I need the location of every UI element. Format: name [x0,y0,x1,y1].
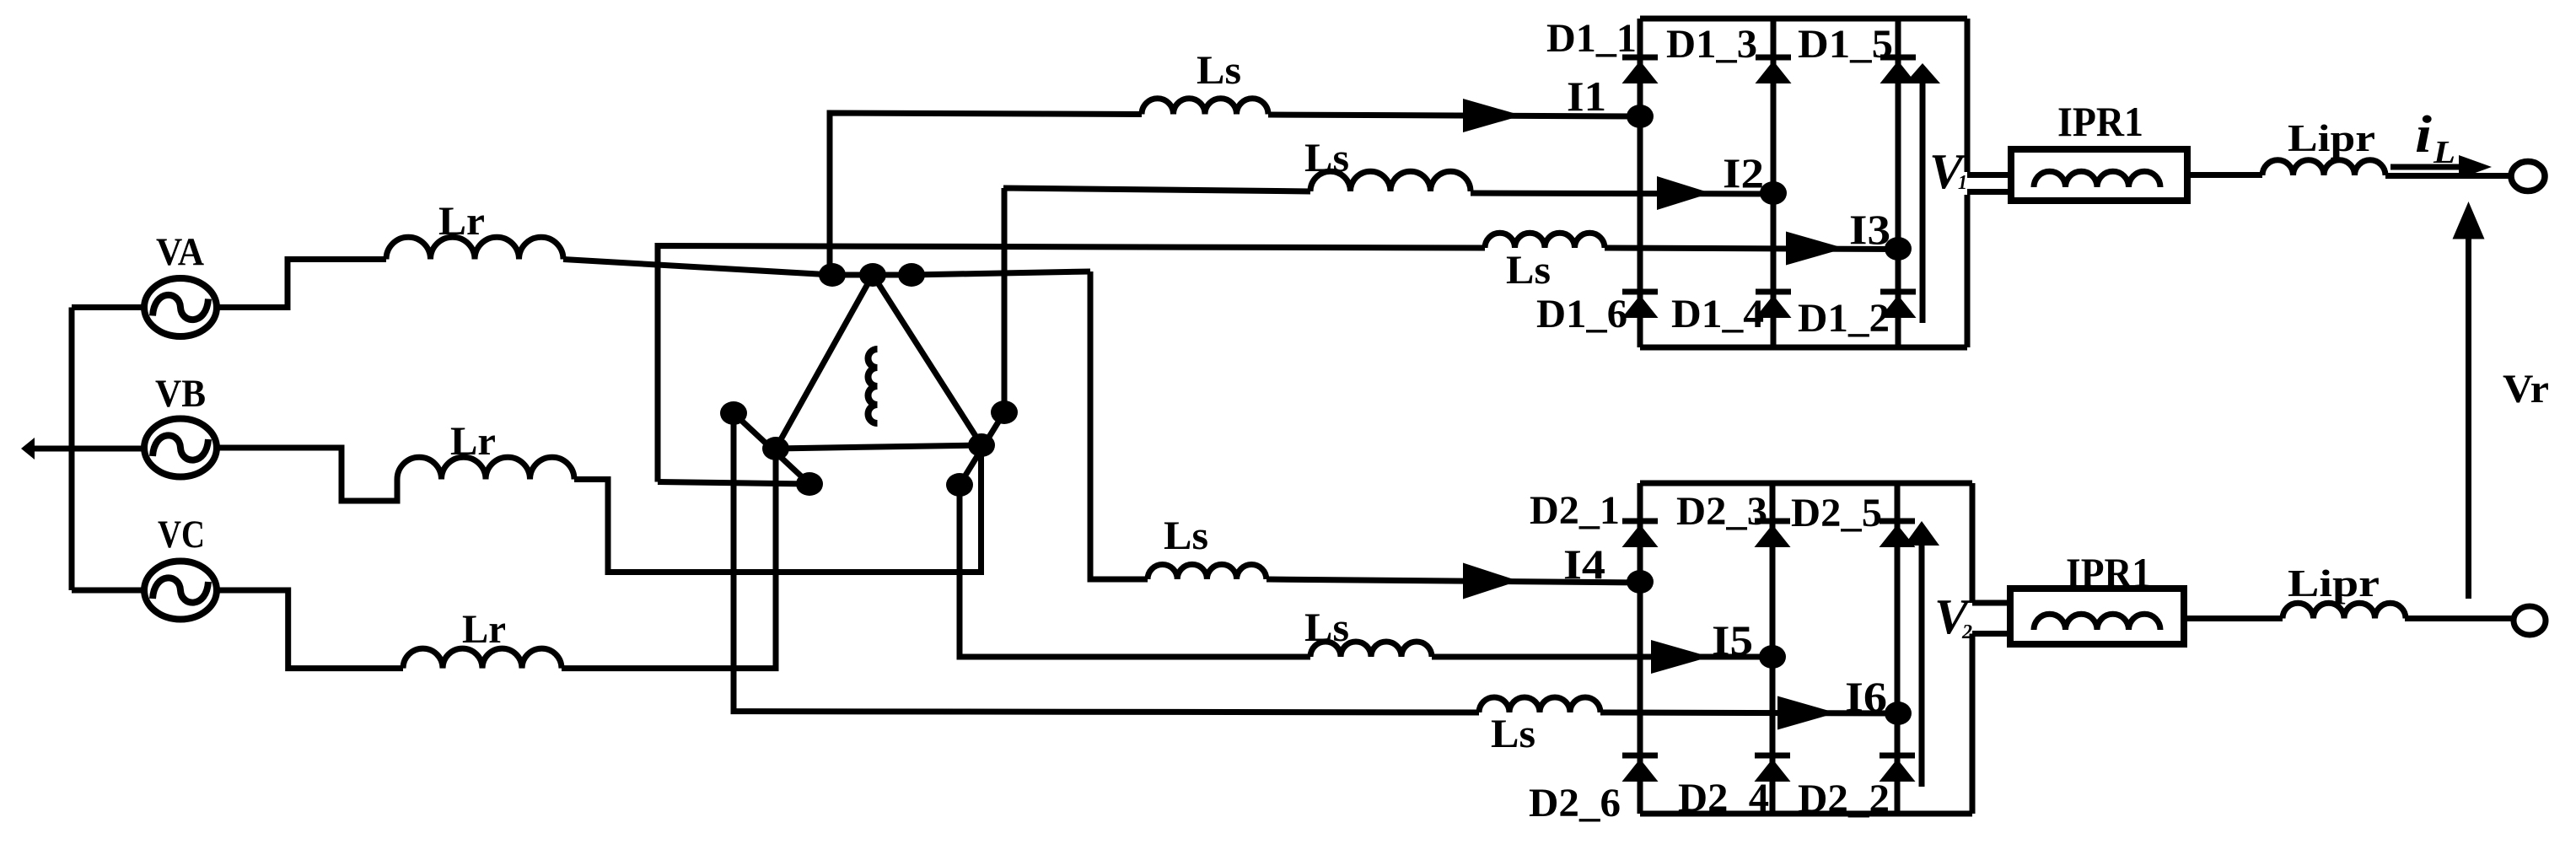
tap line left [734,413,809,484]
svg-text:Lipr: Lipr [2288,562,2380,605]
leg D1_5/D1_2 [1896,19,1901,347]
svg-text:Lr: Lr [462,607,506,652]
wire I5 feed [960,485,1310,657]
node dot (2251,846) [1885,702,1912,725]
transformer delta winding [776,275,981,449]
leg D2_3/D2_4 [1770,483,1776,814]
svg-text:VC: VC [158,513,205,556]
node dot (1945,690) [1627,570,1654,594]
svg-text:D1_4: D1_4 [1671,292,1764,336]
node dot (2102,779) [1759,645,1786,669]
svg-text:Ls: Ls [1304,605,1349,650]
wire I6 feed [734,413,1479,712]
svg-text:L: L [2433,135,2455,170]
diode top bridge1 x=2251 [1880,55,1916,61]
arrow I3 [1786,232,1845,266]
svg-text:I5: I5 [1712,616,1753,664]
svg-text:IPR1: IPR1 [2057,98,2143,145]
svg-text:D1_6: D1_6 [1536,292,1627,336]
svg-text:D1_2: D1_2 [1798,296,1890,341]
diode bottom bridge2 x=2250 [1880,753,1915,759]
svg-text:IPR1: IPR1 [2066,549,2151,596]
iL arrow [2390,164,2460,170]
inductor Ls (I4) [1148,564,1266,579]
output wires V1 [1967,175,2011,192]
node dot (960,574) [796,472,823,496]
diode top bridge2 x=2102 [1755,519,1790,524]
svg-text:Lr: Lr [450,419,496,464]
node dot (2251,295) [1885,237,1912,261]
svg-text:D2_6: D2_6 [1529,781,1621,825]
svg-text:Ls: Ls [1506,248,1551,293]
svg-text:Ls: Ls [1164,513,1208,558]
svg-text:D2_3: D2_3 [1676,489,1767,534]
svg-text:I4: I4 [1563,540,1605,588]
diode bridge 2 box [1640,483,1972,814]
winding coil symbol [869,349,878,423]
node dot (2103,229) [1760,181,1787,205]
diode bottom bridge1 x=2251 [1880,289,1916,295]
wire I2 feed [1003,188,1310,412]
node dot (1164,528) [968,433,995,457]
source VB [144,419,217,477]
svg-text:2: 2 [1961,621,1972,643]
wire I1 feed [830,113,1142,275]
wire VA to bus [72,304,144,310]
V2 arrow [1919,546,1925,787]
wire VB right + step down [215,448,397,501]
source VC [144,562,217,620]
node left bus [69,308,75,591]
wire VC right + step down [216,590,403,669]
leg D2_5/D2_2 [1895,483,1901,814]
svg-text:D2_1: D2_1 [1530,488,1620,533]
svg-text:I1: I1 [1567,73,1606,120]
svg-text:I6: I6 [1845,673,1887,720]
svg-text:Lr: Lr [438,199,485,244]
svg-text:I2: I2 [1723,149,1764,196]
arrow I6 [1777,696,1837,730]
terminal circle bottom [2514,606,2546,635]
arrow I1 [1463,99,1522,132]
svg-text:Ls: Ls [1304,136,1349,180]
node dot (987,326) [819,263,846,287]
svg-text:Lipr: Lipr [2288,117,2375,159]
wire I4 feed [1090,271,1148,579]
Vr arrow [2466,237,2471,599]
inductor Ls (I3) [1485,233,1605,248]
svg-text:D1_3: D1_3 [1666,22,1757,67]
wire VB left with arrow [34,446,145,452]
node dot (920,532) [762,437,789,460]
diode top bridge2 x=2250 [1880,519,1915,524]
svg-text:1: 1 [1958,172,1967,194]
inductor Lr (phase C) [403,648,562,669]
node dot (1081,326) [898,263,925,287]
svg-text:i: i [2415,106,2432,164]
arrow I5 [1651,640,1710,674]
diode bottom bridge2 x=1945 [1622,753,1658,759]
inductor Lipr (top) [2262,160,2385,175]
svg-text:Ls: Ls [1197,48,1241,93]
arrow I4 [1463,563,1519,599]
wire to Lipr (bottom) [2184,616,2283,621]
wire VC to bus [72,588,145,594]
inductor Ls (I1) [1142,99,1268,115]
svg-text:VB: VB [155,372,206,416]
diode top bridge1 x=2103 [1756,55,1791,61]
wire Lr-C to delta bottom-left vertex [562,449,776,669]
svg-text:VA: VA [156,230,204,274]
terminal circle top [2511,162,2545,191]
diode top bridge1 x=1945 [1622,55,1658,61]
inductor Lr (phase A) [386,237,563,259]
diode bottom bridge1 x=1945 [1622,289,1658,295]
wire to Lipr (top) [2187,172,2262,178]
diode top bridge2 x=1945 [1622,519,1658,524]
inductor Lr (phase B) [397,457,574,479]
inductor Lipr (bottom) [2283,603,2406,618]
svg-text:I3: I3 [1849,206,1890,253]
svg-text:D1_5: D1_5 [1798,22,1893,67]
node dot (1138,575) [946,473,973,497]
wire VA right + step up [217,260,386,308]
IPR1 box (top) [2011,149,2187,201]
inductor Ls (I6) [1479,697,1600,712]
svg-text:D1_1: D1_1 [1546,16,1637,61]
tap line right [960,412,1004,485]
IPR1 box (bottom) [2010,589,2184,644]
diode bottom bridge1 x=2103 [1756,289,1791,295]
inductor Ls (I5) [1310,642,1432,657]
node dot (1035,326) [859,263,886,287]
diode bridge 1 box [1640,19,1967,347]
inductor Ls (I2) [1310,171,1471,191]
diode bottom bridge2 x=2102 [1755,753,1790,759]
svg-text:D2_5: D2_5 [1791,491,1882,535]
wire Lr-B to delta bottom-right vertex [574,445,981,573]
source VA [144,278,217,336]
node dot (1945,138) [1627,105,1654,128]
node dot (1191,489) [991,400,1018,424]
svg-text:D2_2: D2_2 [1798,777,1890,821]
svg-text:Ls: Ls [1491,712,1535,756]
node dot (870,490) [720,401,747,425]
output wires V2 [1972,603,2010,634]
leg D1_3/D1_4 [1771,19,1777,347]
wire Lr-A to transformer top [563,260,1090,276]
arrow I2 [1657,176,1711,210]
V1 arrow [1920,83,1926,323]
wire I3 feed [658,246,1485,482]
svg-text:D2_4: D2_4 [1678,776,1769,820]
svg-text:Vr: Vr [2503,367,2549,411]
